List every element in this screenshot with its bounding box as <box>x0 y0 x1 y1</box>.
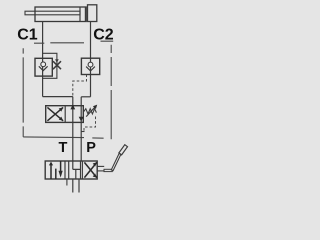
valve U1 up arrow <box>70 105 75 110</box>
valve U2 center step <box>73 161 81 179</box>
check valve V2 seat <box>86 67 95 71</box>
cylinder end block <box>88 5 97 22</box>
valve U2 center vertical <box>68 161 70 179</box>
pilot line to V2 <box>73 75 87 96</box>
wire T line <box>72 97 74 162</box>
adjust arrow <box>86 107 95 117</box>
lever shaft <box>111 154 121 171</box>
wire P line <box>80 97 82 161</box>
enclosure left edge <box>22 48 24 137</box>
lever arm horizontal <box>104 169 112 171</box>
enclosure right edge <box>110 45 112 139</box>
lever link bottom <box>97 170 104 172</box>
check valve V2 ball <box>88 62 93 67</box>
orifice flow arrow <box>55 59 59 63</box>
valve U2 up arrow <box>50 165 52 179</box>
port stub 1 <box>66 179 68 186</box>
valve U2 crossed X <box>84 162 96 177</box>
wire C2 line <box>90 22 92 97</box>
svg-text:T: T <box>59 140 68 156</box>
check valve V1 body <box>35 58 52 76</box>
lever link top <box>97 165 104 167</box>
orifice R1 <box>53 61 61 69</box>
check valve V1 seat <box>39 66 48 70</box>
cylinder body <box>35 7 86 22</box>
spring K1 <box>84 109 97 114</box>
valve U1 divider <box>64 106 66 123</box>
valve U2 stub A <box>55 169 57 179</box>
drain pilot dashed <box>84 117 96 132</box>
port stub 2 <box>72 179 74 193</box>
lever grip <box>119 145 128 155</box>
valve U2 body <box>45 161 97 179</box>
enclosure bottom edge <box>23 137 103 138</box>
valve U2 down arrow <box>60 161 62 172</box>
valve U2 divider 1 <box>64 161 66 179</box>
enclosure top edge <box>34 41 113 43</box>
wire manifold right <box>81 96 90 98</box>
wire C1 line <box>42 22 44 97</box>
cylinder rod <box>25 11 80 15</box>
check valve V1 ball <box>41 62 46 67</box>
drain stub <box>81 131 84 133</box>
port stub 3 <box>78 179 80 193</box>
valve U1 body <box>46 106 84 123</box>
svg-text:C1: C1 <box>17 26 38 43</box>
check valve V2 body <box>81 58 99 74</box>
valve U2 divider 2 <box>80 161 82 179</box>
orifice bypass wire <box>43 53 57 78</box>
valve U2 cell3 edge <box>81 161 83 179</box>
svg-text:P: P <box>86 140 96 156</box>
cylinder piston <box>79 7 81 22</box>
wire manifold left <box>43 96 73 98</box>
valve U1 closed X <box>47 107 63 120</box>
valve U1 down arrow <box>79 117 84 122</box>
